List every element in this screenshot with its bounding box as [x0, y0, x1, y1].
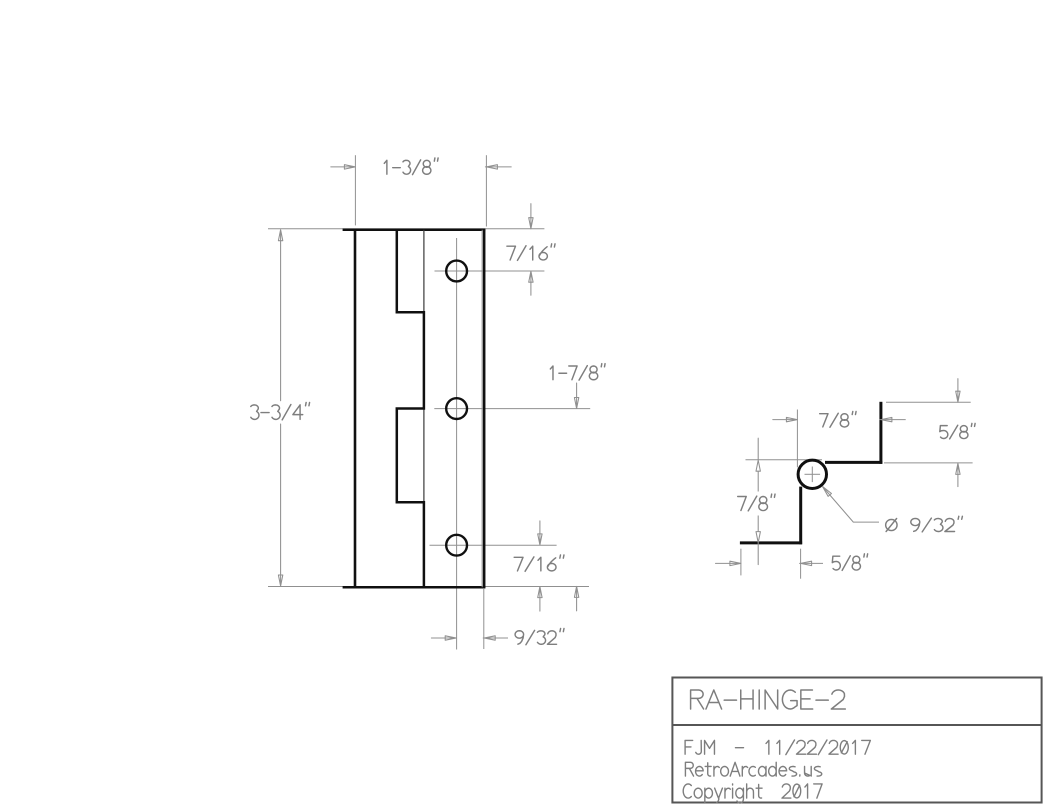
hole 3 centerline horizontal [430, 544, 557, 546]
dim text 9/32" [515, 629, 564, 645]
dim 7/16 bottom upper arrow [538, 521, 542, 545]
dim 1-7/8 upper arrow [574, 383, 578, 409]
dim 5/8 bottom right arrow [800, 561, 812, 565]
side profile top horizontal [825, 461, 882, 464]
dim text 7/8" left [738, 494, 775, 511]
leader arrowhead [823, 487, 832, 497]
dim 9/32 left arrow [431, 636, 456, 640]
title text Copyright 2017 [683, 784, 822, 803]
dim text 1-7/8" [550, 364, 605, 380]
hole 1 centerline horizontal [435, 270, 545, 272]
side: web extension below x [800, 549, 802, 579]
front plate top edge [343, 229, 486, 232]
barrel circle [798, 460, 826, 488]
barrel crosshair [805, 473, 821, 475]
title block border [672, 678, 1041, 803]
dim text 3-3/4" [251, 402, 310, 419]
leader line for diameter [823, 487, 879, 522]
dim text 7/8" top [820, 411, 856, 427]
dim 7/16 top upper arrow [529, 204, 533, 229]
front view bottom edge extension line [268, 586, 589, 588]
hole 2 [446, 398, 467, 419]
dim 5/8 bottom left arrow [716, 561, 741, 565]
dim 7/16 bottom lower arrow [538, 587, 542, 612]
dim 1-7/8 lower arrow [574, 586, 578, 611]
dim 1-3/8 right extension line [485, 155, 487, 226]
knuckle joint line lower (thin) [423, 409, 425, 503]
dim 7/16 top lower arrow [529, 271, 533, 295]
side: lower-right extension y [884, 462, 973, 464]
knuckle joint line upper (thin) [423, 230, 425, 312]
dim 7/8 left lower arrow [756, 532, 760, 565]
dim 7/8 top right arrow [880, 417, 892, 421]
front plate bottom edge [343, 586, 486, 589]
side profile bottom flange [740, 541, 802, 544]
dim 5/8 right upper arrow [956, 379, 960, 403]
dim text 7/16" bottom [514, 555, 564, 571]
title text FJM - 11/22/2017 [685, 740, 870, 755]
title text RetroArcades.us [685, 762, 821, 776]
dim text 5/8" bottom [832, 554, 867, 571]
hole 3 [446, 535, 467, 556]
dim text 5/8" right [940, 423, 975, 438]
front plate fold line (gray, inside right edge) [481, 230, 483, 588]
title block divider [672, 724, 1041, 726]
front plate right edge [483, 229, 486, 589]
dim text 7/16" top [507, 244, 555, 261]
dim 3-3/4 line lower [278, 424, 282, 586]
side: top-right extension y [886, 401, 971, 403]
dim 1-3/8 left extension line [354, 155, 356, 225]
right edge extension below plate [483, 589, 485, 649]
front view top edge extension line [268, 228, 544, 230]
side: top 7/8 left extension x [796, 410, 798, 468]
dim 7/8 top left arrow [773, 417, 798, 421]
hole 1 [446, 261, 467, 282]
hole centerline vertical [456, 238, 458, 650]
title text RA-HINGE-2 [691, 690, 846, 709]
knuckle zigzag outline [397, 230, 424, 588]
front plate left edge [354, 229, 357, 589]
dim 3-3/4 line upper [278, 230, 282, 401]
hole 2 centerline horizontal [434, 408, 590, 410]
dim 5/8 right lower arrow [956, 463, 960, 486]
side profile web vertical [799, 487, 802, 545]
dim 1-3/8 right arrow [485, 165, 497, 169]
dim text 1-3/8" [384, 158, 438, 175]
side: barrel top tangent extension [746, 459, 823, 461]
side profile right vertical [879, 402, 882, 464]
dim 7/8 left upper arrow [756, 438, 760, 471]
side: bottom-left flange extension x [740, 549, 742, 576]
dim 9/32 right arrow [483, 636, 495, 640]
dim text diameter 9/32" [886, 516, 963, 532]
dim 1-3/8 left arrow [331, 165, 356, 169]
